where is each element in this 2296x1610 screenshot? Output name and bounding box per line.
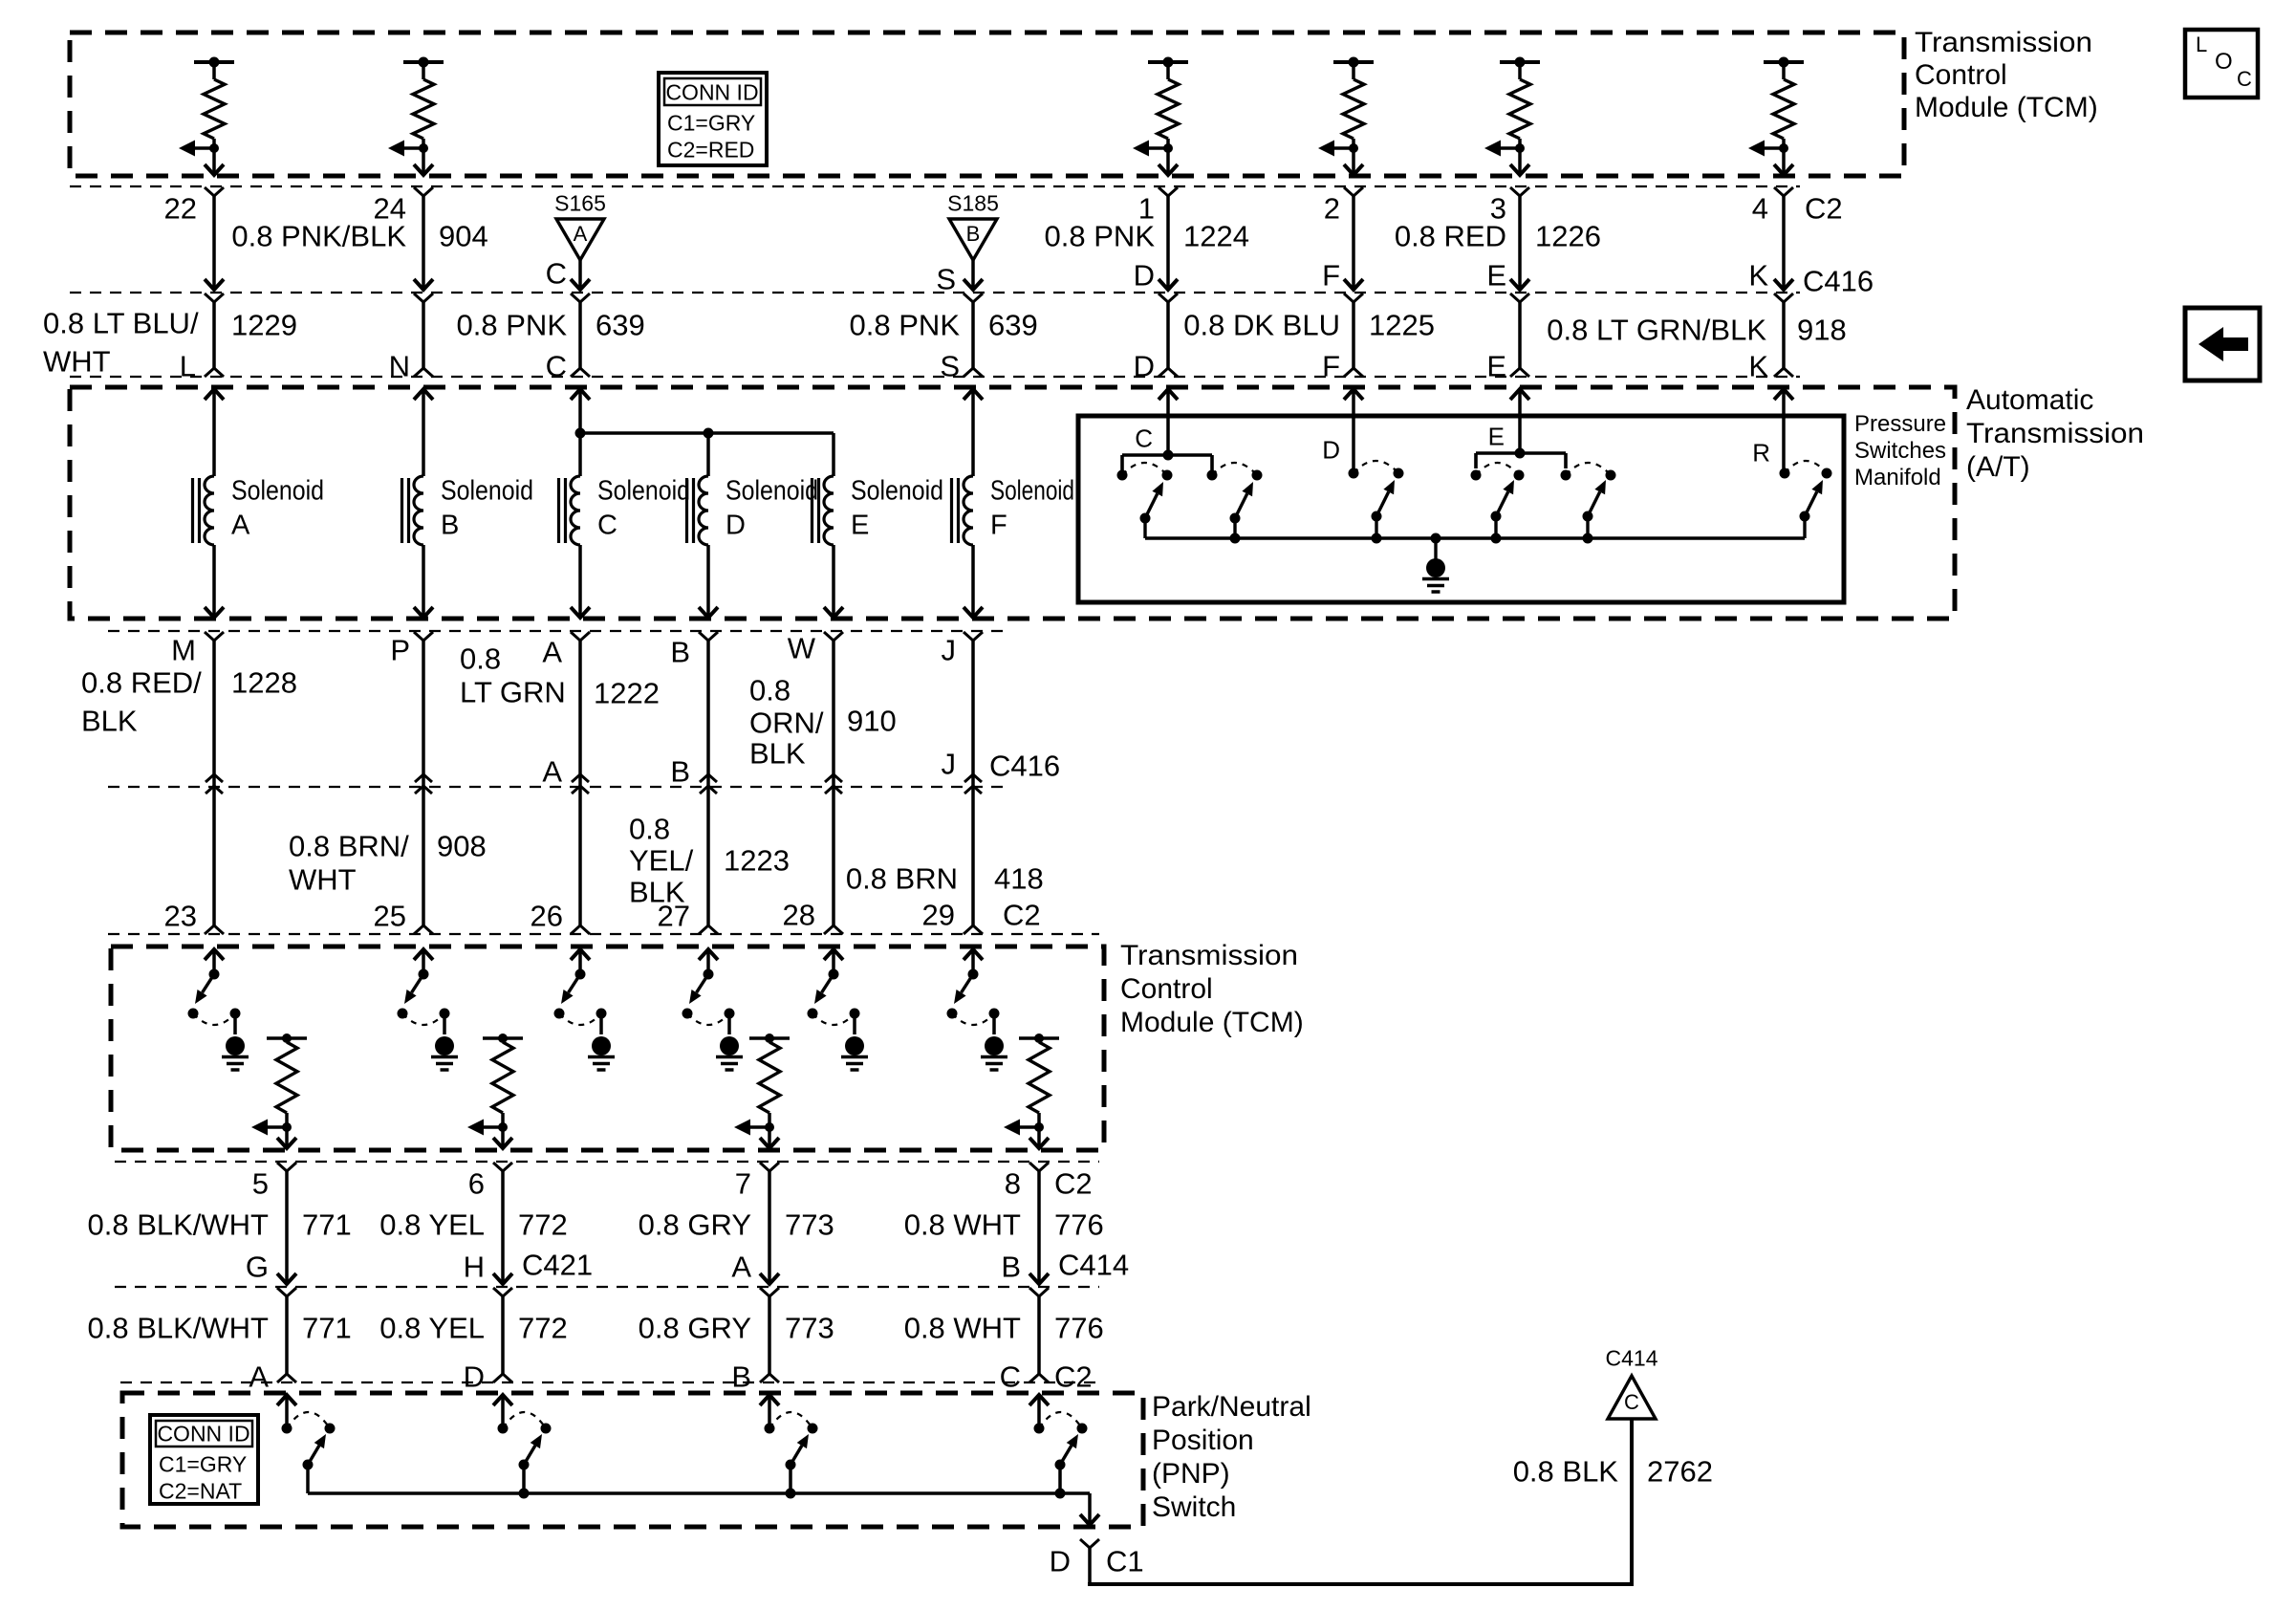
pressure switch C1 contacts: [1117, 463, 1173, 481]
svg-text:2762: 2762: [1647, 1455, 1713, 1489]
Transmission Control Module (TCM) top dashed box: [70, 33, 1904, 176]
svg-text:S: S: [940, 350, 960, 383]
svg-text:N: N: [389, 350, 410, 383]
svg-text:P: P: [390, 634, 410, 667]
label pin 7: [735, 1167, 751, 1201]
wire solenoid E to connector W (x=872): [824, 545, 843, 934]
node junction at resistor R5 bottom: [1515, 143, 1525, 153]
label pin N: [389, 350, 410, 383]
solenoid D: [687, 476, 819, 546]
label wire 639 label B: [850, 309, 1038, 342]
Pressure Switches Manifold box: [1078, 416, 1844, 602]
resistor R7 in lower TCM (x=300): [267, 1033, 307, 1127]
label pin A row3: [542, 636, 562, 669]
solenoid B: [402, 476, 534, 546]
node C terminal pressure switch (1222,476): [1122, 424, 1212, 471]
label wire 773 label b: [639, 1312, 834, 1345]
svg-text:0.8 PNK/BLK: 0.8 PNK/BLK: [231, 220, 406, 253]
svg-text:A: A: [249, 1360, 269, 1394]
svg-text:WHT: WHT: [43, 345, 111, 379]
connector row line C2 pins 5-8: [115, 1161, 1099, 1163]
wire 904 column N/24 (x=443) upper segments: [414, 187, 433, 377]
svg-text:904: 904: [439, 220, 488, 253]
node junction solenoid D branch (741,453): [704, 428, 714, 439]
wire 639 from S185 to connector S (x=1018): [964, 260, 983, 377]
svg-text:6: 6: [468, 1167, 485, 1201]
svg-text:1224: 1224: [1183, 220, 1249, 253]
wire PNP common bus: [308, 1489, 1090, 1499]
svg-text:0.8 BLK: 0.8 BLK: [1513, 1455, 1619, 1489]
label pin L: [180, 350, 196, 383]
label pin 23: [164, 900, 197, 933]
svg-text:R: R: [1752, 439, 1770, 468]
connector row line C421/C414: [115, 1286, 1099, 1288]
label pin 5: [252, 1167, 269, 1201]
svg-text:0.8 GRY: 0.8 GRY: [639, 1312, 751, 1345]
label wire 1224 label: [1045, 220, 1249, 253]
svg-text:K: K: [1748, 259, 1768, 293]
label wire 776 label b: [904, 1312, 1104, 1345]
label pin S row1: [936, 263, 956, 296]
svg-text:Control: Control: [1915, 59, 2007, 91]
svg-text:7: 7: [735, 1167, 751, 1201]
PNP switch contact S2 (x=526): [498, 1412, 552, 1434]
svg-text:0.8 WHT: 0.8 WHT: [904, 1208, 1021, 1242]
PNP switch contact S1 (x=300): [282, 1412, 336, 1434]
label pin C row1: [546, 257, 567, 291]
svg-text:0.8 BLK/WHT: 0.8 BLK/WHT: [88, 1312, 270, 1345]
svg-text:Switch: Switch: [1152, 1491, 1236, 1523]
wire manifold common bus: [1145, 536, 1805, 540]
pressure switch R contacts: [1752, 439, 1831, 479]
svg-text:639: 639: [596, 309, 645, 342]
connector C414 triangle C: [1606, 1346, 1658, 1420]
svg-text:S185: S185: [947, 191, 999, 216]
wire R10 down to connector, arrow: [1029, 1127, 1049, 1148]
label pin F row1: [1322, 259, 1340, 293]
svg-text:Transmission: Transmission: [1120, 940, 1298, 971]
label connector C421: [522, 1249, 593, 1282]
label pin 22: [164, 192, 197, 226]
svg-text:1223: 1223: [724, 844, 790, 878]
svg-text:Solenoid: Solenoid: [597, 476, 690, 507]
svg-text:L: L: [180, 350, 196, 383]
svg-text:1229: 1229: [231, 309, 297, 342]
svg-text:0.8 RED: 0.8 RED: [1395, 220, 1506, 253]
resistor R1 in TCM (pull-up, column x=224): [194, 57, 234, 149]
resistor R6 in TCM (pull-up, column x=1866): [1764, 57, 1804, 149]
harness row line C2 (lower): [108, 933, 1099, 935]
label pin D PNP: [464, 1360, 485, 1394]
svg-text:908: 908: [437, 830, 487, 863]
wire 1229 column L/22 (x=224) upper segments: [205, 187, 224, 377]
TCM input switch SW2 (x=443): [398, 949, 450, 1025]
label pin D row2: [1134, 350, 1155, 383]
label connector C416 mid: [989, 750, 1060, 783]
svg-text:F: F: [1322, 259, 1340, 293]
wire internal left-arrow from R8 node: [467, 1120, 503, 1136]
svg-text:C: C: [597, 511, 617, 541]
wire 639 from S165 to connector C (x=607): [571, 260, 590, 377]
svg-text:CONN ID: CONN ID: [157, 1422, 249, 1447]
wire internal left-arrow from R2 node: [388, 141, 423, 157]
harness row line above PNP switch: [120, 1382, 1099, 1383]
wire R7 down to connector, arrow: [277, 1127, 296, 1148]
label pin 6: [468, 1167, 485, 1201]
label wire 773 label a: [639, 1208, 834, 1242]
svg-text:B: B: [731, 1360, 751, 1394]
svg-text:0.8: 0.8: [629, 813, 670, 846]
svg-text:ORN/: ORN/: [749, 707, 824, 740]
wire internal left-arrow from R5 node: [1484, 141, 1520, 157]
svg-text:Solenoid: Solenoid: [441, 476, 533, 507]
label pin 3: [1490, 192, 1506, 226]
label pin E row1: [1486, 259, 1506, 293]
svg-text:26: 26: [531, 900, 563, 933]
label pin J row3b: [942, 748, 957, 781]
label pin A row3b: [542, 755, 562, 789]
svg-text:LT GRN: LT GRN: [460, 676, 566, 709]
svg-text:A: A: [574, 222, 588, 246]
label wire 904 label: [231, 220, 487, 253]
resistor R3 in TCM (pull-up, column x=1222): [1148, 57, 1188, 149]
label wire 908 label: [289, 830, 487, 897]
label wire 776 label a: [904, 1208, 1104, 1242]
svg-text:Switches: Switches: [1854, 438, 1946, 464]
label pin 29: [922, 899, 955, 932]
svg-text:772: 772: [518, 1312, 568, 1345]
svg-text:(A/T): (A/T): [1966, 451, 2030, 483]
wire R4 to TCM connector, arrow down: [1344, 148, 1363, 175]
svg-text:B: B: [670, 636, 690, 669]
label pin 26: [531, 900, 563, 933]
svg-text:S165: S165: [554, 191, 606, 216]
wire 1226/E column upper segments (x=1590): [1510, 187, 1529, 377]
svg-text:0.8 GRY: 0.8 GRY: [639, 1208, 751, 1242]
svg-text:A: A: [731, 1251, 751, 1284]
label pin A C414: [731, 1251, 751, 1284]
svg-text:29: 29: [922, 899, 955, 932]
label pin B row3: [670, 636, 690, 669]
svg-text:1226: 1226: [1535, 220, 1601, 253]
svg-text:C: C: [546, 257, 567, 291]
svg-text:0.8 BLK/WHT: 0.8 BLK/WHT: [88, 1208, 270, 1242]
Transmission Control Module (TCM) lower dashed box: [111, 946, 1104, 1150]
svg-text:C: C: [1135, 424, 1153, 453]
left-arrow legend box right margin: [2185, 308, 2260, 381]
label connector C1: [1106, 1545, 1144, 1578]
svg-text:E: E: [851, 511, 869, 541]
wire R8 down to connector, arrow: [493, 1127, 512, 1148]
label pin M: [171, 634, 196, 667]
resistor R4 in TCM (pull-up, column x=1416): [1333, 57, 1374, 149]
Automatic Transmission (A/T) dashed box: [70, 387, 1955, 619]
label Park/Neutral Position (PNP) Switch: [1152, 1391, 1311, 1523]
svg-text:C1=GRY: C1=GRY: [667, 111, 755, 136]
resistor R9 in lower TCM (x=805): [749, 1033, 790, 1127]
svg-text:0.8 YEL: 0.8 YEL: [379, 1208, 485, 1242]
svg-text:771: 771: [302, 1208, 352, 1242]
wire internal left-arrow from R3 node: [1133, 141, 1168, 157]
label pin D row1: [1134, 259, 1155, 293]
wire solenoid D to connector B (x=741): [699, 545, 718, 934]
svg-text:Solenoid: Solenoid: [990, 476, 1074, 507]
svg-text:YEL/: YEL/: [629, 844, 694, 878]
svg-text:C2: C2: [1054, 1167, 1093, 1201]
svg-text:D: D: [1322, 436, 1340, 465]
label pin 28: [783, 899, 815, 932]
wire 77x column lower segments (x=1087): [1029, 1163, 1049, 1382]
ground at SW6: [981, 1013, 1007, 1070]
wire solenoid D drop (x=741): [706, 433, 710, 476]
svg-text:D: D: [464, 1360, 485, 1394]
ground G (manifold internal): [1422, 538, 1449, 592]
svg-text:0.8 BRN: 0.8 BRN: [846, 862, 958, 896]
svg-text:Pressure: Pressure: [1854, 411, 1946, 437]
svg-text:0.8 PNK: 0.8 PNK: [457, 309, 568, 342]
svg-text:1225: 1225: [1369, 309, 1435, 342]
svg-text:773: 773: [785, 1208, 834, 1242]
svg-text:776: 776: [1054, 1312, 1104, 1345]
svg-text:E: E: [1486, 259, 1506, 293]
wire solenoid F to connector J (x=1018): [964, 545, 983, 934]
label wire 1225 label: [1183, 309, 1435, 342]
label pin E row2: [1486, 350, 1506, 383]
label Pressure Switches Manifold: [1854, 411, 1946, 490]
svg-text:D: D: [726, 511, 746, 541]
svg-text:771: 771: [302, 1312, 352, 1345]
wire into pressure switch manifold (x=1222): [1159, 389, 1178, 455]
svg-text:C: C: [1000, 1360, 1021, 1394]
wire internal left-arrow from R4 node: [1318, 141, 1354, 157]
svg-text:C2: C2: [1805, 192, 1843, 226]
PNP switch arm S1: [303, 1434, 327, 1493]
node junction at resistor R9 bottom: [765, 1122, 774, 1132]
label connector C414 label: [1058, 1249, 1129, 1282]
resistor R10 in lower TCM (x=1087): [1019, 1033, 1059, 1127]
wire internal left-arrow from R1 node: [179, 141, 214, 157]
PNP switch arm S2: [519, 1434, 543, 1493]
label pin 4: [1752, 192, 1768, 226]
CONN ID legend box (C1=GRY, C2=RED): [659, 73, 767, 165]
ground at SW5: [841, 1013, 868, 1070]
svg-text:0.8 YEL: 0.8 YEL: [379, 1312, 485, 1345]
label pin H: [464, 1251, 485, 1284]
label pin K row2: [1748, 350, 1768, 383]
label pin 24: [374, 192, 406, 226]
wire 77x column lower segments (x=300): [277, 1163, 296, 1382]
label pin 1: [1138, 192, 1155, 226]
node junction at resistor R2 bottom: [419, 143, 428, 153]
wire R6 to TCM connector, arrow down: [1774, 148, 1793, 175]
wire solenoid A feed inside A/T (x=224): [205, 389, 224, 476]
label wire 771 label b: [88, 1312, 352, 1345]
node junction solenoid C branch (607,453): [575, 428, 586, 439]
resistor R2 in TCM (pull-up, column x=443): [403, 57, 444, 149]
label wire 1229 label: [43, 307, 297, 379]
label wire 639 label A: [457, 309, 645, 342]
svg-text:J: J: [942, 748, 957, 781]
svg-text:BLK: BLK: [749, 737, 806, 771]
wire R2 to TCM connector, arrow down: [414, 148, 433, 175]
label pin 27: [658, 900, 690, 933]
svg-text:639: 639: [988, 309, 1038, 342]
wire 918/R column upper segments (x=1866): [1774, 187, 1793, 377]
TCM input switch SW1 (x=224): [188, 949, 241, 1025]
svg-text:0.8 WHT: 0.8 WHT: [904, 1312, 1021, 1345]
wire solenoid F feed inside A/T (x=1018): [964, 389, 983, 476]
CONN ID legend box (C1=GRY, C2=NAT): [150, 1415, 258, 1504]
svg-text:C416: C416: [989, 750, 1060, 783]
wire solenoid C feed inside A/T (x=607): [571, 389, 590, 476]
svg-text:0.8 LT BLU/: 0.8 LT BLU/: [43, 307, 199, 340]
svg-text:772: 772: [518, 1208, 568, 1242]
label pin 25: [374, 900, 406, 933]
solenoid E: [812, 476, 944, 546]
pressure switch D contacts: [1322, 436, 1403, 479]
wire internal left-arrow from R10 node: [1004, 1120, 1039, 1136]
label pin C PNP: [1000, 1360, 1021, 1394]
svg-text:Manifold: Manifold: [1854, 465, 1941, 490]
svg-text:D: D: [1050, 1545, 1071, 1578]
svg-text:F: F: [1322, 350, 1340, 383]
PNP switch arm S4: [1055, 1434, 1079, 1493]
svg-text:Transmission: Transmission: [1915, 27, 2092, 58]
node junction at resistor R8 bottom: [498, 1122, 508, 1132]
svg-text:Solenoid: Solenoid: [231, 476, 324, 507]
PNP switch contact S3 (x=805): [765, 1412, 818, 1434]
svg-text:4: 4: [1752, 192, 1768, 226]
wire internal left-arrow from R6 node: [1748, 141, 1784, 157]
svg-text:Solenoid: Solenoid: [726, 476, 818, 507]
wire into PNP switch (x=300): [277, 1395, 296, 1428]
label pin 2: [1324, 192, 1340, 226]
label pin B C414: [1001, 1251, 1021, 1284]
pressure switch C1 arm: [1140, 482, 1164, 538]
node junction at resistor R3 bottom: [1163, 143, 1173, 153]
wire R9 down to connector, arrow: [760, 1127, 779, 1148]
solenoid C: [559, 476, 691, 546]
pressure switch E2 arm: [1583, 480, 1607, 538]
label wire 1226 label: [1395, 220, 1601, 253]
label pin G: [246, 1251, 269, 1284]
svg-text:25: 25: [374, 900, 406, 933]
node E terminal pressure switch (1590,474): [1476, 423, 1566, 469]
svg-text:0.8: 0.8: [749, 674, 791, 707]
PNP switch arm S3: [786, 1434, 810, 1493]
svg-text:0.8 PNK: 0.8 PNK: [1045, 220, 1156, 253]
svg-text:D: D: [1134, 259, 1155, 293]
svg-text:0.8 PNK: 0.8 PNK: [850, 309, 961, 342]
label pin F row2: [1322, 350, 1340, 383]
solenoid A: [193, 476, 325, 546]
label Transmission Control Module (TCM) lower: [1120, 940, 1304, 1038]
label wire 1223 label: [629, 813, 790, 909]
svg-text:0.8: 0.8: [460, 642, 501, 676]
label pin A PNP: [249, 1360, 269, 1394]
svg-text:Module (TCM): Module (TCM): [1120, 1007, 1304, 1038]
svg-text:BLK: BLK: [81, 705, 138, 738]
svg-text:Park/Neutral: Park/Neutral: [1152, 1391, 1311, 1423]
wire 1225/D column upper segments (x=1416): [1344, 187, 1363, 377]
svg-text:M: M: [171, 634, 196, 667]
svg-text:E: E: [1488, 423, 1505, 451]
svg-text:Transmission: Transmission: [1966, 418, 2144, 449]
ground at SW1: [222, 1013, 249, 1070]
wire into PNP switch (x=805): [760, 1395, 779, 1428]
pressure switch E1 contacts: [1471, 463, 1525, 481]
svg-text:1228: 1228: [231, 666, 297, 700]
wire branch C-D-E inside A/T: [580, 433, 834, 476]
label Transmission Control Module (TCM) top: [1915, 27, 2098, 123]
pressure switch E1 arm: [1491, 480, 1515, 538]
svg-text:C: C: [546, 350, 567, 383]
svg-text:773: 773: [785, 1312, 834, 1345]
svg-text:Automatic: Automatic: [1966, 384, 2093, 416]
svg-text:22: 22: [164, 192, 197, 226]
pressure switch R arm: [1800, 480, 1824, 538]
wire into pressure switch manifold (x=1590): [1510, 389, 1529, 453]
node junction at resistor R4 bottom: [1349, 143, 1358, 153]
svg-text:A: A: [542, 636, 562, 669]
label wire 772 label a: [379, 1208, 567, 1242]
svg-text:0.8 LT GRN/BLK: 0.8 LT GRN/BLK: [1547, 314, 1766, 347]
svg-text:W: W: [788, 632, 816, 665]
label pin P: [390, 634, 410, 667]
label connector C2 mid: [1003, 899, 1041, 932]
svg-text:C414: C414: [1606, 1346, 1658, 1371]
splice S165 triangle A: [554, 191, 606, 261]
pressure switch E2 contacts: [1561, 463, 1616, 481]
label pin K row1: [1748, 259, 1768, 293]
label Automatic Transmission (A/T): [1966, 384, 2144, 483]
label pin B PNP: [731, 1360, 751, 1394]
svg-text:0.8 BRN/: 0.8 BRN/: [289, 830, 409, 863]
svg-text:0.8 DK BLU: 0.8 DK BLU: [1183, 309, 1340, 342]
TCM input switch SW4 (x=741): [682, 949, 735, 1025]
svg-text:B: B: [441, 511, 459, 541]
svg-text:D: D: [1134, 350, 1155, 383]
label pin J row3: [942, 634, 957, 667]
svg-text:Position: Position: [1152, 1425, 1254, 1456]
Park/Neutral Position (PNP) Switch dashed box: [122, 1393, 1143, 1527]
svg-text:1222: 1222: [594, 677, 660, 710]
wire 1224/C column upper segments (x=1222): [1159, 187, 1178, 377]
svg-text:C421: C421: [522, 1249, 593, 1282]
svg-text:C2=RED: C2=RED: [667, 138, 754, 163]
svg-text:B: B: [1001, 1251, 1021, 1284]
harness row line above A/T: [70, 376, 1800, 378]
harness row line mid splice: [108, 786, 1009, 788]
TCM input switch SW6 (x=1018): [947, 949, 1000, 1025]
label connector C416 upper: [1803, 265, 1874, 298]
svg-text:918: 918: [1797, 314, 1847, 347]
svg-text:C2: C2: [1054, 1360, 1093, 1394]
svg-text:418: 418: [994, 862, 1044, 896]
label pin C row2: [546, 350, 567, 383]
label pin W: [788, 632, 816, 665]
svg-text:776: 776: [1054, 1208, 1104, 1242]
wire R5 to TCM connector, arrow down: [1510, 148, 1529, 175]
pressure switch D arm: [1372, 480, 1396, 538]
svg-text:Solenoid: Solenoid: [851, 476, 943, 507]
svg-text:C: C: [2237, 67, 2252, 91]
resistor R5 in TCM (pull-up, column x=1590): [1500, 57, 1540, 149]
wire into pressure switch manifold (x=1416): [1344, 389, 1363, 468]
connector row line C416 (upper): [70, 292, 1800, 294]
label wire 771 label a: [88, 1208, 352, 1242]
label wire 910 label: [749, 674, 897, 771]
